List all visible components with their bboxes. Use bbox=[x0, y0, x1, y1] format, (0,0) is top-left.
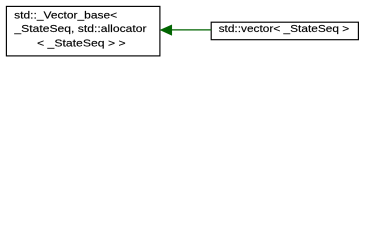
svg-text:< _StateSeq > >: < _StateSeq > > bbox=[37, 38, 126, 50]
svg-text:std::_Vector_base<: std::_Vector_base< bbox=[14, 9, 117, 21]
inheritance arrowhead bbox=[160, 25, 172, 35]
svg-text:_StateSeq, std::allocator: _StateSeq, std::allocator bbox=[13, 23, 147, 35]
node std::_Vector_base box bbox=[6, 6, 160, 56]
node std::vector box bbox=[211, 22, 358, 40]
inheritance edge (dark green line) bbox=[171, 29, 211, 31]
svg-text:std::vector< _StateSeq >: std::vector< _StateSeq > bbox=[219, 23, 350, 35]
